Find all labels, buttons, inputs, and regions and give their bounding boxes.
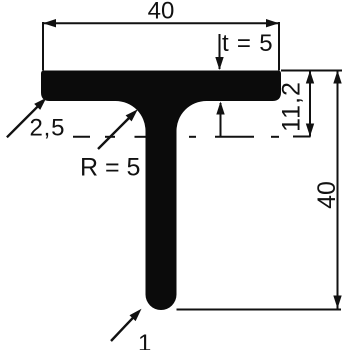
leader line for fillet radius R = 5 <box>98 114 133 149</box>
arrowhead right of top dimension <box>266 19 279 27</box>
centroid dimension line (11,2) <box>309 71 311 137</box>
arrowhead up (11,2) <box>306 71 314 84</box>
leader line for edge radius 2,5 <box>7 103 41 137</box>
leader line for web toe radius 1 <box>111 315 136 341</box>
bottom extension line <box>177 309 342 311</box>
arrowhead up to flange bottom <box>216 102 224 115</box>
top-right extension line <box>281 70 342 72</box>
arrowhead of 1 leader <box>130 309 142 321</box>
svg-text:40: 40 <box>313 181 341 209</box>
arrowhead down (height 40) <box>333 296 341 309</box>
arrowhead down to flange top <box>215 57 223 70</box>
arrowhead left of top dimension <box>43 19 56 27</box>
arrow from centroid line up to flange bottom <box>220 103 222 137</box>
extension line left (top width dim) <box>42 22 44 71</box>
svg-text:1: 1 <box>138 330 151 350</box>
extension line right (top width dim) <box>278 22 280 71</box>
T-profile cross-section (black body) <box>41 71 281 311</box>
short centroid extension line right <box>293 136 311 138</box>
arrowhead of R = 5 leader <box>126 109 138 121</box>
svg-text:40: 40 <box>148 0 175 25</box>
arrowhead up (height 40) <box>333 71 341 84</box>
svg-text:11,2: 11,2 <box>278 81 306 132</box>
top width dimension line <box>43 22 279 24</box>
svg-text:R = 5: R = 5 <box>80 154 140 182</box>
svg-text:2,5: 2,5 <box>30 115 66 142</box>
svg-text:t = 5: t = 5 <box>222 30 273 57</box>
height dimension line (40 right) <box>337 71 339 309</box>
arrowhead of 2,5 leader <box>34 98 46 110</box>
arrowhead down (11,2) <box>306 124 314 137</box>
centroid dash-dot line <box>73 136 90 138</box>
flange thickness leader line (t = 5) <box>219 34 221 69</box>
